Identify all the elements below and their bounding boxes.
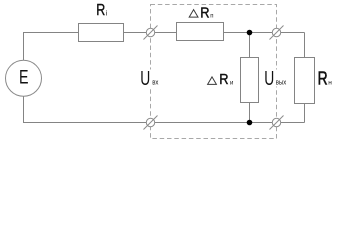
terminal top-left bbox=[144, 26, 158, 40]
label mask U_vyx bbox=[263, 70, 289, 87]
svg-text:E: E bbox=[19, 66, 29, 88]
label mask U_vx bbox=[140, 70, 163, 87]
svg-text:вх: вх bbox=[152, 79, 159, 86]
terminal bottom-right bbox=[270, 116, 284, 130]
wire: dRp to Rn corner bbox=[224, 32, 305, 34]
source E bbox=[6, 60, 42, 96]
wire: E top to Ri bbox=[24, 33, 79, 62]
node A junction dot bbox=[247, 30, 253, 36]
wire: dRi bottom to node B bbox=[249, 103, 251, 123]
svg-text:U: U bbox=[140, 67, 150, 90]
wire: node A to dRi top bbox=[249, 33, 251, 58]
resistor dRi bbox=[241, 58, 259, 103]
label delta Rp bbox=[189, 10, 198, 18]
wire: Rn bottom to bottom rail bbox=[304, 103, 306, 123]
terminal top-right bbox=[270, 26, 284, 40]
wire: Ri to dRp bbox=[124, 32, 177, 34]
svg-text:R: R bbox=[219, 71, 228, 88]
dashed boundary of sensor block bbox=[151, 5, 277, 139]
svg-text:п: п bbox=[210, 13, 213, 19]
svg-text:R: R bbox=[318, 68, 328, 89]
wire: drop to Rn top bbox=[304, 33, 306, 58]
node B junction dot bbox=[247, 120, 253, 126]
svg-text:R: R bbox=[200, 4, 209, 21]
label delta Ri bbox=[208, 77, 217, 85]
svg-text:н: н bbox=[328, 80, 332, 87]
resistor dRp bbox=[177, 23, 224, 41]
wire: bottom rail bbox=[24, 97, 305, 123]
svg-text:R: R bbox=[96, 2, 105, 19]
svg-text:U: U bbox=[264, 67, 274, 90]
svg-text:и: и bbox=[230, 80, 233, 86]
resistor Rn bbox=[295, 58, 315, 104]
terminal bottom-left bbox=[144, 116, 158, 130]
svg-text:i: i bbox=[106, 11, 108, 18]
resistor Ri bbox=[79, 24, 124, 42]
svg-text:вых: вых bbox=[276, 79, 287, 86]
